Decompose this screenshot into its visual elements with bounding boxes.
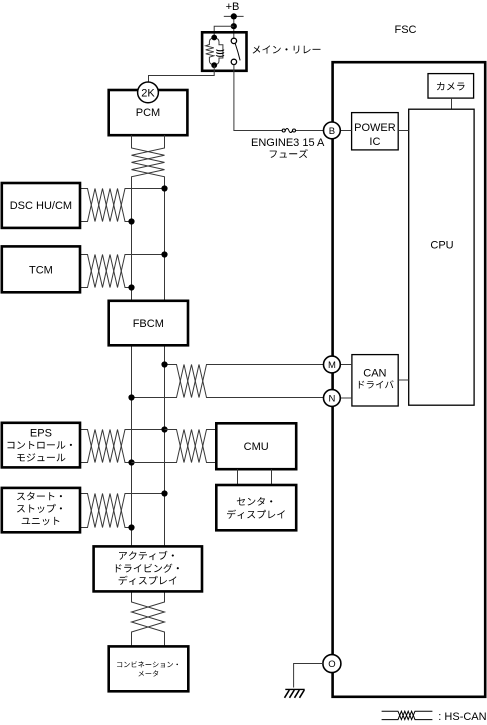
connector pin 2K (138, 82, 159, 103)
svg-text:2K: 2K (141, 87, 155, 99)
svg-text:EPS: EPS (30, 427, 52, 439)
wire POWER IC to CPU (398, 130, 409, 132)
start-stop unit box (2, 488, 80, 532)
center display box (216, 485, 296, 530)
active driving display box (94, 546, 202, 591)
junction relay feed (231, 23, 237, 29)
label フューズ (270, 149, 308, 158)
svg-text:FSC: FSC (395, 24, 417, 36)
relay box (main relay) (202, 32, 246, 71)
bus wire CAN-H (132, 135, 165, 646)
EPS control module box (2, 423, 80, 468)
terminal N (324, 390, 341, 407)
terminal B (324, 122, 341, 139)
FSC box (333, 62, 486, 697)
relay coil (206, 35, 224, 69)
junction N pair CAN-L (128, 394, 134, 400)
power rail tick (224, 15, 244, 17)
svg-text:CPU: CPU (430, 240, 453, 252)
wire camera to CPU (451, 98, 453, 109)
fuse ENGINE3 15 A (282, 128, 295, 132)
CAN driver box (352, 355, 398, 406)
wire terminal B to POWER IC (340, 130, 351, 132)
ground (285, 689, 305, 697)
svg-text:TCM: TCM (29, 265, 53, 277)
twisted pair TCM to bus (80, 255, 165, 288)
junction EPS CAN-L (128, 459, 134, 465)
wires CMU to center display (238, 469, 272, 485)
POWER IC box (352, 113, 399, 150)
terminal M (324, 356, 341, 373)
svg-text:FBCM: FBCM (133, 318, 164, 330)
svg-text:N: N (328, 394, 335, 405)
node +B (226, 1, 240, 13)
PCM box (109, 90, 188, 135)
CPU box (409, 109, 474, 405)
svg-text:O: O (328, 659, 335, 670)
twisted pair bus to FSC M/N (132, 365, 324, 398)
junction DSC CAN-H (161, 185, 167, 191)
svg-text:+B: +B (226, 1, 240, 13)
DSC HU/CM box (2, 183, 80, 228)
CMU box (216, 423, 296, 469)
svg-text:ENGINE3 15 A: ENGINE3 15 A (251, 137, 325, 149)
camera box (428, 74, 474, 99)
legend twisted pair symbol (382, 711, 433, 719)
wire terminal M to CAN driver (340, 364, 352, 366)
wire CAN driver to CPU (398, 379, 409, 381)
svg-text:PCM: PCM (136, 107, 160, 119)
junction start-stop CAN-H (161, 490, 167, 496)
junction EPS CAN-H (161, 426, 167, 432)
junction M pair CAN-H (161, 361, 167, 367)
wire +B to relay switch (233, 16, 235, 38)
TCM box (2, 246, 80, 292)
junction DSC CAN-L (128, 218, 134, 224)
FBCM box (109, 301, 188, 346)
svg-text:POWER: POWER (354, 122, 396, 134)
bus wire CAN-L (132, 135, 165, 646)
twisted pair DSC to bus (80, 189, 165, 222)
svg-text:DSC HU/CM: DSC HU/CM (10, 200, 72, 212)
label ENGINE3 15 A (251, 137, 325, 149)
twisted pair start-stop unit to bus (80, 494, 165, 528)
terminal O (323, 655, 341, 673)
combination meter box (109, 646, 189, 691)
svg-text:M: M (328, 360, 336, 371)
svg-text:CMU: CMU (244, 441, 269, 453)
wire +B branch to relay coil (214, 26, 234, 35)
relay switch (231, 38, 240, 64)
label FSC (395, 24, 417, 36)
wire relay switch to fuse to terminal B (234, 65, 324, 131)
junction TCM CAN-L (128, 284, 134, 290)
svg-text:IC: IC (369, 136, 380, 148)
svg-text:: HS-CAN: : HS-CAN (438, 711, 486, 723)
twisted pair EPS to bus (80, 430, 165, 463)
svg-text:B: B (329, 126, 335, 137)
wire terminal O to ground (294, 664, 323, 688)
wire terminal N to CAN driver (340, 397, 352, 399)
junction TCM CAN-H (161, 251, 167, 257)
label メイン・リレー (253, 45, 321, 53)
twisted pair bus to CMU (132, 430, 217, 463)
junction +B (231, 13, 237, 19)
wire relay coil to pin 2K (149, 65, 215, 82)
svg-text:CAN: CAN (363, 368, 386, 380)
label HS-CAN (438, 711, 486, 723)
junction start-stop CAN-L (128, 524, 134, 530)
